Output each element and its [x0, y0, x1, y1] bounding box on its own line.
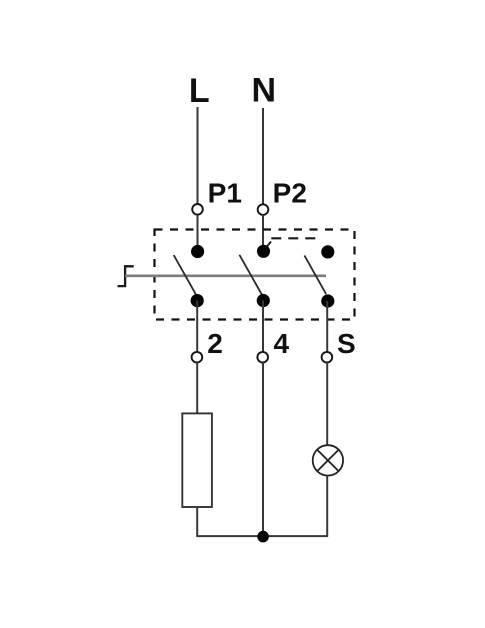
pole 1 switch blade: [174, 255, 196, 295]
wire pole 1 to terminal 2: [196, 301, 198, 352]
heater element R1: [182, 413, 212, 507]
terminal 2: [192, 352, 203, 363]
linkage tick from pole 2 contact: [264, 242, 271, 251]
pole 1 bottom contact: [191, 294, 204, 307]
wire terminal 2 to heater: [196, 362, 198, 413]
wire pole 2 to terminal 4: [262, 301, 264, 353]
terminal P1: [192, 204, 203, 215]
pole 3 top contact: [321, 245, 334, 258]
wire P1 to pole 1: [197, 215, 199, 252]
wire N lead: [262, 108, 264, 205]
wire terminal 4 to junction: [262, 362, 264, 536]
wire terminal S to lamp: [326, 362, 328, 445]
junction node: [257, 531, 269, 543]
wire lamp to bottom bus: [326, 476, 328, 536]
wire L lead: [197, 107, 199, 204]
actuator step symbol: [118, 266, 134, 286]
mechanical coupling line: [125, 274, 326, 277]
pole 2 switch blade: [239, 255, 261, 295]
lamp cross stroke 1: [317, 450, 338, 471]
svg-text:P2: P2: [273, 178, 307, 209]
switch enclosure (dashed box): [155, 230, 355, 320]
internal dashed linkage line: [271, 237, 316, 239]
svg-text:4: 4: [274, 328, 290, 359]
wire pole 3 to terminal S: [326, 301, 328, 352]
svg-text:L: L: [189, 72, 210, 110]
pole 3 bottom contact: [321, 294, 334, 307]
indicator lamp: [313, 445, 343, 475]
svg-text:P1: P1: [208, 178, 242, 209]
bottom bus wire: [196, 535, 328, 537]
pole 3 switch blade: [304, 255, 326, 294]
pole 1 top contact: [191, 245, 204, 258]
wire heater to bottom bus: [196, 507, 198, 536]
terminal S: [322, 352, 333, 363]
svg-text:N: N: [252, 72, 277, 110]
lamp cross stroke 2: [317, 450, 338, 471]
terminal 4: [257, 352, 268, 363]
terminal P2: [258, 204, 269, 215]
pole 2 bottom contact: [257, 294, 270, 307]
wire P2 to pole 2: [262, 215, 264, 252]
pole 2 top contact: [257, 245, 270, 258]
svg-text:2: 2: [207, 328, 223, 359]
svg-text:S: S: [337, 328, 356, 359]
